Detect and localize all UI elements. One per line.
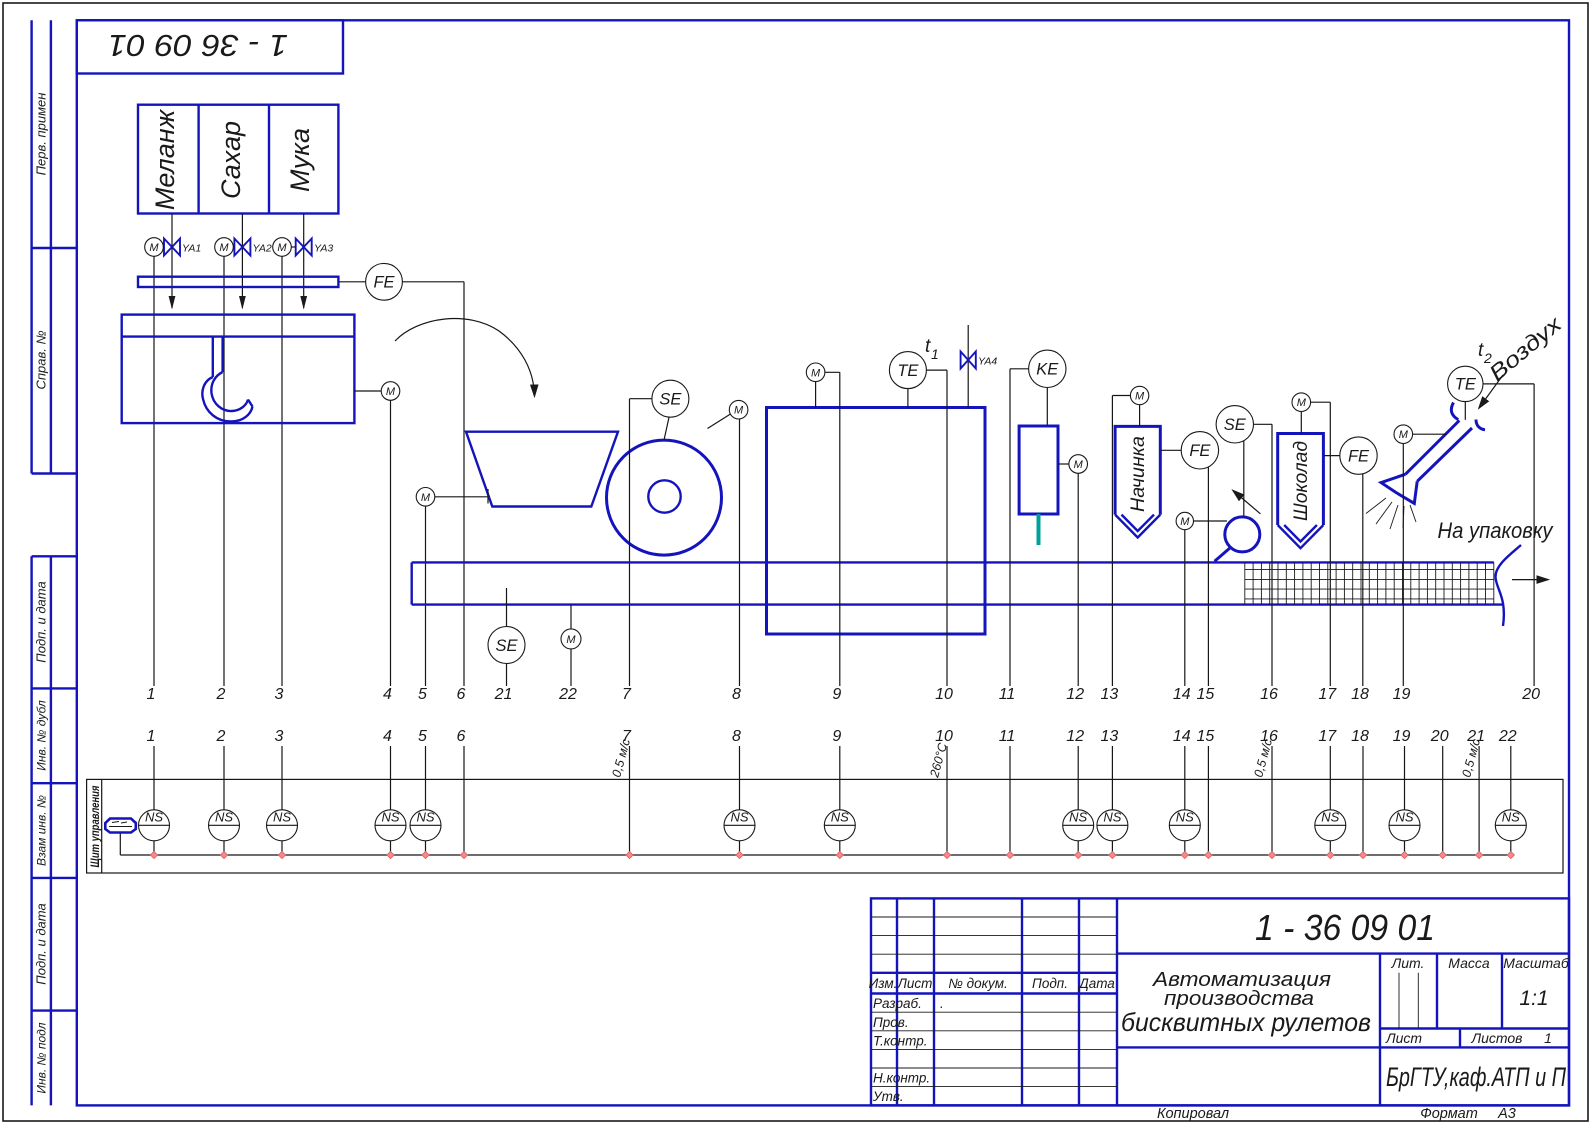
conveyor left end bbox=[411, 562, 413, 604]
svg-text:SE: SE bbox=[1224, 416, 1247, 434]
svg-text:Сахар: Сахар bbox=[216, 121, 246, 199]
panel lead 12 bbox=[1077, 746, 1079, 855]
panel lead 6 bbox=[463, 746, 465, 855]
wire M5 to funnel bbox=[435, 496, 488, 498]
moisture sensor KE bbox=[1029, 350, 1066, 387]
svg-text:6: 6 bbox=[457, 686, 466, 703]
header row labels bbox=[869, 976, 1116, 1104]
flow sensor FE chocolate bbox=[1340, 437, 1377, 474]
svg-text:NS: NS bbox=[1395, 810, 1413, 825]
svg-text:11: 11 bbox=[999, 728, 1016, 745]
conveyor break wave bbox=[1495, 545, 1521, 626]
motor M3 link bbox=[291, 246, 295, 248]
svg-text:4: 4 bbox=[383, 728, 392, 745]
svg-text:NS: NS bbox=[730, 810, 748, 825]
svg-text:№ докум.: № докум. bbox=[948, 976, 1007, 991]
svg-text:.: . bbox=[940, 996, 944, 1011]
wire bar to FE bbox=[338, 281, 365, 283]
svg-text:NS: NS bbox=[416, 810, 434, 825]
wire SE16 to roller bbox=[1243, 441, 1245, 517]
wire hopper to FE18 bbox=[1323, 455, 1339, 457]
wire M17 stub to line17 bbox=[1311, 402, 1331, 686]
valve YA4 bbox=[961, 352, 976, 369]
controller NS 14 bbox=[1169, 810, 1200, 841]
svg-text:Масса: Масса bbox=[1448, 955, 1490, 971]
svg-text:YA1: YA1 bbox=[182, 243, 201, 255]
wire line2 from M2 down bbox=[223, 256, 225, 686]
panel lead 18 bbox=[1362, 746, 1364, 855]
panel input numbers row bbox=[147, 728, 1517, 745]
funnel hopper bbox=[466, 432, 618, 507]
svg-text:Инв. № дубл: Инв. № дубл bbox=[35, 700, 49, 771]
svg-text:FE: FE bbox=[373, 274, 395, 292]
belt speed sensor SE21 wire bbox=[506, 588, 508, 626]
svg-text:M: M bbox=[386, 386, 396, 398]
svg-text:Листов: Листов bbox=[1471, 1030, 1523, 1046]
svg-text:NS: NS bbox=[1103, 810, 1121, 825]
svg-text:14: 14 bbox=[1173, 686, 1191, 703]
wire M9 to oven bbox=[815, 382, 817, 408]
panel lead 20 bbox=[1442, 746, 1444, 855]
panel label strip divider bbox=[101, 779, 103, 873]
left margin column top group bbox=[32, 20, 77, 473]
svg-text:2: 2 bbox=[216, 728, 226, 745]
wire KE stub to line11 bbox=[1010, 369, 1029, 686]
schematic line numbers row bbox=[147, 686, 1541, 703]
cooling grid horizontals bbox=[1245, 569, 1494, 599]
supply box dividers bbox=[199, 105, 269, 214]
panel lead 16 bbox=[1271, 746, 1273, 855]
svg-text:19: 19 bbox=[1393, 686, 1411, 703]
svg-text:22: 22 bbox=[558, 686, 577, 703]
packaging arrow bbox=[1512, 579, 1548, 581]
panel lead 13 bbox=[1111, 746, 1113, 855]
controller NS 4 bbox=[375, 810, 406, 841]
control panel band bbox=[87, 779, 1563, 873]
funnel motor tick bbox=[487, 489, 489, 504]
panel lead 2 bbox=[223, 746, 225, 855]
svg-text:15: 15 bbox=[1197, 686, 1215, 703]
svg-text:NS: NS bbox=[215, 810, 233, 825]
svg-text:Н.контр.: Н.контр. bbox=[873, 1071, 930, 1086]
controller NS 22 bbox=[1495, 810, 1526, 841]
spray lines bbox=[1366, 498, 1416, 529]
controller NS 8 bbox=[724, 810, 755, 841]
air temp sensor TE t2 bbox=[1448, 366, 1483, 401]
wire line19 down bbox=[1402, 444, 1404, 687]
svg-text:NS: NS bbox=[381, 810, 399, 825]
bus line bbox=[120, 833, 1511, 856]
svg-text:Подп. и дата: Подп. и дата bbox=[34, 903, 49, 984]
svg-text:TE: TE bbox=[1455, 376, 1477, 394]
svg-text:YA4: YA4 bbox=[978, 356, 997, 368]
wire line8 down bbox=[739, 419, 741, 686]
title block outer bbox=[871, 898, 1569, 1105]
svg-text:15: 15 bbox=[1197, 728, 1215, 745]
panel lead 8 bbox=[739, 746, 741, 855]
svg-text:10: 10 bbox=[935, 686, 953, 703]
Лит Масса Масштаб bbox=[1385, 955, 1570, 1046]
flow sensor FE filling bbox=[1181, 432, 1218, 469]
controller NS 5 bbox=[410, 810, 441, 841]
svg-text:SE: SE bbox=[495, 637, 518, 655]
top stamp box bbox=[77, 20, 343, 73]
conveyor bottom line bbox=[412, 603, 1503, 605]
svg-text:M: M bbox=[734, 405, 744, 417]
wire vessel to M12 bbox=[1058, 463, 1069, 465]
title block blue horizontals bbox=[871, 954, 1569, 1048]
svg-text:Дата: Дата bbox=[1077, 976, 1115, 991]
wire mixer to M4 bbox=[354, 390, 381, 392]
wire hopper to FE14 bbox=[1160, 449, 1181, 451]
chocolate hopper V bottom bbox=[1278, 525, 1324, 548]
svg-text:бисквитных рулетов: бисквитных рулетов bbox=[1121, 1007, 1371, 1037]
svg-text:TE: TE bbox=[897, 362, 919, 380]
motor M12 vessel bbox=[1069, 455, 1088, 474]
indicator badge bbox=[105, 819, 136, 833]
svg-text:Лист: Лист bbox=[897, 976, 933, 991]
svg-text:12: 12 bbox=[1066, 686, 1084, 703]
controller NS 2 bbox=[209, 810, 240, 841]
motor M13 hopper bbox=[1130, 386, 1148, 404]
panel lead 5 bbox=[425, 746, 427, 855]
flow sensor FE dozer bbox=[366, 263, 403, 300]
svg-text:Утв.: Утв. bbox=[872, 1089, 904, 1104]
svg-text:Масштаб: Масштаб bbox=[1503, 955, 1570, 971]
wire TE2 to nozzle bbox=[1464, 402, 1466, 420]
wire TE to oven bbox=[907, 389, 909, 408]
panel lead 4 bbox=[390, 746, 392, 855]
svg-text:11: 11 bbox=[999, 686, 1016, 703]
motor M3 bbox=[273, 238, 292, 257]
air nozzle duct bbox=[1406, 403, 1486, 482]
svg-text:Лит.: Лит. bbox=[1391, 955, 1425, 971]
controller NS 3 bbox=[267, 810, 298, 841]
svg-text:YA2: YA2 bbox=[253, 243, 272, 255]
svg-text:Лист: Лист bbox=[1385, 1030, 1422, 1046]
wire line6 down bbox=[463, 282, 465, 686]
svg-text:1: 1 bbox=[147, 728, 156, 745]
svg-text:19: 19 bbox=[1393, 728, 1411, 745]
speed sensor SE16 bbox=[1216, 406, 1253, 443]
svg-text:1 - 36 09 01: 1 - 36 09 01 bbox=[1255, 907, 1435, 948]
svg-text:1: 1 bbox=[147, 686, 156, 703]
panel lead 14 bbox=[1184, 746, 1186, 855]
svg-text:1 - 36 09 01: 1 - 36 09 01 bbox=[108, 28, 288, 63]
cooling grid verticals bbox=[1245, 562, 1494, 604]
motor M17 chocolate bbox=[1292, 393, 1311, 412]
filling hopper V bottom bbox=[1115, 515, 1160, 538]
adjust arrow at roller bbox=[1233, 491, 1260, 514]
motor M19 nozzle bbox=[1394, 425, 1413, 444]
wire line5 down bbox=[425, 506, 427, 686]
svg-text:NS: NS bbox=[831, 810, 849, 825]
curved transfer arrow bbox=[395, 319, 535, 396]
wire SE21 to number bbox=[506, 664, 508, 687]
wire SE16 stub to line16 bbox=[1254, 424, 1273, 686]
svg-text:M: M bbox=[566, 634, 576, 646]
wire FE to line6 bbox=[402, 281, 464, 283]
svg-text:12: 12 bbox=[1066, 728, 1084, 745]
svg-text:22: 22 bbox=[1498, 728, 1517, 745]
svg-text:M: M bbox=[1180, 516, 1190, 528]
nozzle bell bbox=[1381, 474, 1417, 503]
mixer tank bbox=[122, 315, 355, 424]
svg-text:18: 18 bbox=[1351, 686, 1369, 703]
svg-text:4: 4 bbox=[383, 686, 392, 703]
panel lead 19 bbox=[1404, 746, 1406, 855]
svg-text:M: M bbox=[1135, 391, 1145, 403]
wire KE to vessel bbox=[1046, 388, 1048, 427]
title block blue verticals bbox=[897, 898, 1502, 1105]
svg-text:13: 13 bbox=[1101, 686, 1119, 703]
motor M2 bbox=[215, 238, 234, 257]
drum inner bbox=[648, 480, 680, 512]
svg-text:Перв. примен: Перв. примен bbox=[34, 93, 49, 176]
svg-text:8: 8 bbox=[732, 728, 741, 745]
svg-text:NS: NS bbox=[1321, 810, 1339, 825]
svg-text:18: 18 bbox=[1351, 728, 1369, 745]
svg-text:Щит управления: Щит управления bbox=[88, 786, 102, 868]
supply boxes outline bbox=[138, 105, 338, 214]
filling hopper Начинка bbox=[1115, 426, 1160, 514]
svg-text:NS: NS bbox=[1502, 810, 1520, 825]
svg-text:FE: FE bbox=[1348, 447, 1370, 465]
Лит sub-cells bbox=[1399, 973, 1418, 1029]
speed sensor SE7 bbox=[652, 380, 689, 417]
svg-text:YA3: YA3 bbox=[314, 243, 333, 255]
svg-text:Формат: Формат bbox=[1420, 1106, 1478, 1122]
wire M13 to hopper bbox=[1139, 405, 1141, 427]
valve YA1 bbox=[164, 239, 180, 256]
svg-text:M: M bbox=[1074, 459, 1084, 471]
svg-text:Изм.: Изм. bbox=[869, 976, 898, 991]
svg-text:5: 5 bbox=[418, 728, 427, 745]
chocolate hopper Шоколад bbox=[1278, 434, 1324, 526]
panel lead 1 bbox=[153, 746, 155, 855]
svg-text:9: 9 bbox=[832, 686, 841, 703]
valve YA2 bbox=[234, 239, 250, 256]
spreading roller bbox=[1225, 517, 1260, 552]
svg-text:3: 3 bbox=[275, 728, 284, 745]
controller NS 9 bbox=[824, 810, 855, 841]
wire drum to M8 bbox=[708, 414, 731, 429]
bus junctions bbox=[150, 851, 1514, 858]
wire TE2 stub to line20 bbox=[1483, 384, 1534, 686]
wire line15 from FE down bbox=[1207, 467, 1209, 686]
temp sensor TE t1 bbox=[889, 352, 926, 389]
motor M14 roller bbox=[1176, 512, 1193, 529]
wire M13 stub to line13 bbox=[1112, 396, 1130, 687]
svg-text:NS: NS bbox=[1069, 810, 1087, 825]
wire M19 to duct bbox=[1413, 433, 1447, 435]
controller NS 17 bbox=[1315, 810, 1346, 841]
motor M1 bbox=[145, 238, 164, 257]
svg-text:20: 20 bbox=[1430, 728, 1449, 745]
svg-text:14: 14 bbox=[1173, 728, 1191, 745]
svg-text:Справ. №: Справ. № bbox=[34, 330, 49, 389]
wire M22 to number bbox=[570, 649, 572, 686]
panel lead 21 bbox=[1478, 746, 1480, 855]
speed sensor SE21 bbox=[488, 627, 525, 664]
panel lead 17 bbox=[1329, 746, 1331, 855]
vessel probe teal bbox=[1037, 514, 1041, 545]
wire M17 to hopper bbox=[1300, 412, 1302, 434]
svg-text:M: M bbox=[421, 492, 431, 504]
svg-text:Начинка: Начинка bbox=[1128, 436, 1149, 512]
svg-text:2: 2 bbox=[216, 686, 226, 703]
motor M22 wire top bbox=[570, 605, 572, 629]
svg-text:3: 3 bbox=[275, 686, 284, 703]
panel lead 22 bbox=[1510, 746, 1512, 855]
panel lead 7 bbox=[629, 746, 631, 855]
svg-text:5: 5 bbox=[418, 686, 427, 703]
controller NS 12 bbox=[1063, 810, 1094, 841]
svg-text:KE: KE bbox=[1036, 361, 1059, 379]
steam pipe bbox=[967, 325, 969, 408]
svg-text:Шоколад: Шоколад bbox=[1291, 441, 1312, 521]
motor M8 drum bbox=[729, 400, 748, 419]
svg-text:FE: FE bbox=[1189, 442, 1211, 460]
conveyor top line bbox=[412, 561, 1494, 563]
wire M9 stub to line9 bbox=[825, 372, 840, 686]
svg-text:NS: NS bbox=[1176, 810, 1194, 825]
svg-text:21: 21 bbox=[494, 686, 513, 703]
svg-text:7: 7 bbox=[622, 686, 632, 703]
svg-text:20: 20 bbox=[1521, 686, 1540, 703]
motor M5 funnel bbox=[416, 488, 435, 507]
svg-text:13: 13 bbox=[1101, 728, 1119, 745]
svg-text:А3: А3 bbox=[1497, 1106, 1516, 1122]
product drop line 1 with arrow bbox=[171, 214, 173, 309]
wire TE stub to line10 bbox=[926, 370, 947, 686]
svg-text:Подп.: Подп. bbox=[1032, 976, 1068, 991]
svg-text:БрГТУ,каф.АТП и П: БрГТУ,каф.АТП и П bbox=[1386, 1062, 1566, 1092]
mixer lid line bbox=[122, 335, 355, 337]
weigh conveyor bar bbox=[138, 277, 338, 287]
svg-text:8: 8 bbox=[732, 686, 741, 703]
panel lead 3 bbox=[281, 746, 283, 855]
oven chamber bbox=[767, 408, 986, 635]
svg-text:Инв. № подл: Инв. № подл bbox=[35, 1022, 49, 1093]
svg-text:M: M bbox=[219, 242, 229, 254]
svg-text:На упаковку: На упаковку bbox=[1438, 518, 1555, 543]
panel lead 9 bbox=[839, 746, 841, 855]
svg-text:M: M bbox=[1399, 429, 1409, 441]
motor M1 link bbox=[162, 246, 165, 248]
wire drum to SE7 bbox=[664, 417, 669, 440]
product drop line 2 with arrow bbox=[241, 214, 243, 309]
svg-text:17: 17 bbox=[1318, 728, 1337, 745]
controller NS 1 bbox=[139, 810, 170, 841]
air flow arrow bbox=[1479, 375, 1503, 408]
svg-text:Копировал: Копировал bbox=[1157, 1106, 1229, 1122]
svg-text:6: 6 bbox=[457, 728, 466, 745]
svg-text:M: M bbox=[149, 242, 159, 254]
motor M2 link bbox=[233, 246, 234, 248]
motor M9 oven bbox=[806, 363, 825, 382]
title block thin rows bbox=[871, 917, 1117, 1087]
drum outer bbox=[607, 440, 722, 555]
svg-text:SE: SE bbox=[659, 391, 682, 409]
mixer hook agitator bbox=[202, 337, 252, 422]
panel lead 15 bbox=[1207, 746, 1209, 855]
cream vessel bbox=[1019, 426, 1058, 514]
svg-text:NS: NS bbox=[273, 810, 291, 825]
svg-text:16: 16 bbox=[1260, 686, 1278, 703]
svg-text:M: M bbox=[1297, 397, 1307, 409]
wire line4 down bbox=[390, 400, 392, 686]
product drop line 3 with arrow bbox=[303, 214, 305, 309]
svg-text:1:1: 1:1 bbox=[1519, 987, 1548, 1010]
svg-text:Мука: Мука bbox=[285, 128, 315, 192]
controller NS 13 bbox=[1097, 810, 1128, 841]
svg-text:Подп. и дата: Подп. и дата bbox=[34, 581, 49, 662]
left margin column bottom group bbox=[32, 556, 77, 1105]
svg-text:Меланж: Меланж bbox=[150, 108, 180, 210]
svg-text:9: 9 bbox=[832, 728, 841, 745]
svg-text:NS: NS bbox=[145, 810, 163, 825]
wire line1 from M1 down bbox=[153, 256, 155, 686]
wire line3 from M3 down bbox=[281, 256, 283, 686]
panel lead 10 bbox=[946, 746, 948, 855]
svg-text:Взам инв. №: Взам инв. № bbox=[35, 795, 49, 866]
motor M4 mixer bbox=[381, 382, 400, 401]
roller tangent blade bbox=[1215, 548, 1231, 562]
svg-text:M: M bbox=[811, 367, 821, 379]
svg-text:Т.контр.: Т.контр. bbox=[873, 1034, 927, 1049]
motor M22 belt bbox=[561, 629, 581, 649]
wire M14 to roller bbox=[1194, 520, 1228, 522]
controller NS 19 bbox=[1389, 810, 1420, 841]
panel lead 11 bbox=[1009, 746, 1011, 855]
wire line18 from FE down bbox=[1362, 474, 1364, 686]
svg-text:Разраб.: Разраб. bbox=[873, 996, 922, 1011]
bottom margin labels bbox=[1157, 1106, 1516, 1122]
svg-text:Пров.: Пров. bbox=[873, 1015, 909, 1030]
wire line14 down bbox=[1184, 530, 1186, 686]
wire SE7 stub to line7 bbox=[630, 399, 652, 686]
valve YA3 bbox=[296, 239, 312, 256]
wire line12 down bbox=[1077, 473, 1079, 686]
svg-text:1: 1 bbox=[1544, 1030, 1552, 1046]
svg-text:17: 17 bbox=[1318, 686, 1337, 703]
svg-text:1: 1 bbox=[931, 346, 939, 362]
svg-text:M: M bbox=[277, 242, 287, 254]
